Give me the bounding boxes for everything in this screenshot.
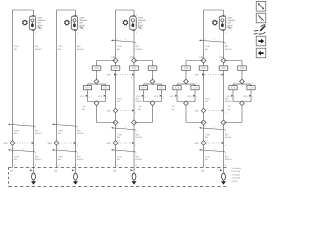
wire left branch 1 — [12, 10, 14, 168]
driver ground arrow 2 — [73, 180, 78, 184]
label wire 1g — [14, 156, 19, 162]
pin label 1R top — [35, 164, 37, 167]
connector marker 2 mid — [52, 122, 79, 131]
svg-text:X30: X30 — [221, 67, 226, 70]
tick 1 143R — [32, 142, 37, 147]
wire cluster 2 ring top — [144, 83, 162, 85]
injector INJ3 — [123, 14, 147, 34]
wire injector stub branch 2 — [75, 10, 77, 16]
connector marker 3 low — [111, 147, 137, 156]
splice cluster 3 bottom — [184, 101, 189, 106]
pin label 2L bot — [54, 170, 58, 173]
splice tie label 4 110 — [195, 110, 200, 113]
dotted tie 3 at 143 — [118, 142, 133, 144]
label wire 4g — [205, 156, 210, 162]
pin label cluster 4 b — [252, 81, 254, 84]
driver ground arrow 3 — [132, 180, 137, 184]
wire cluster 4 ring bottom — [233, 101, 251, 103]
wire cluster 4 feed — [224, 61, 243, 66]
label wire 3d — [136, 98, 143, 104]
merge splice 4L — [201, 120, 206, 125]
svg-text:739B: 739B — [14, 130, 19, 133]
label wire 2h — [77, 156, 84, 162]
connector box on wire 4L — [199, 66, 208, 70]
label wire 4c — [205, 98, 210, 104]
dotted tie 4 at 110.5 — [206, 110, 223, 112]
connector box cluster 2 R — [157, 86, 165, 90]
pin arrow 4 — [220, 169, 223, 171]
connector marker 1 low — [8, 147, 37, 156]
connector box cluster 2 L — [139, 86, 147, 90]
driver coil 1 — [32, 173, 36, 180]
svg-text:2 Fuel inj: 2 Fuel inj — [232, 170, 241, 173]
pin label cluster 1 b — [107, 81, 109, 84]
svg-text:BK/WH: BK/WH — [136, 136, 143, 139]
label wire 1e — [14, 130, 19, 136]
dotted tie 1 at 143 — [15, 142, 33, 144]
connector box cluster 3 L — [173, 86, 181, 90]
svg-text:BN/WH: BN/WH — [225, 48, 232, 51]
svg-text:BK/WH: BK/WH — [35, 132, 42, 135]
splice cluster 4 top — [240, 79, 245, 84]
label wire 2g — [58, 156, 63, 162]
svg-text:739B: 739B — [205, 156, 210, 159]
connector box cluster 2 feed — [148, 66, 157, 70]
splice S32 label — [130, 56, 135, 59]
svg-text:739B: 739B — [205, 134, 210, 137]
pin label cluster 3 a — [178, 81, 180, 84]
driver coil 2 — [74, 173, 78, 180]
connector marker 3 mid — [111, 125, 137, 134]
svg-text:X39: X39 — [107, 74, 112, 77]
icon signature pen — [254, 25, 266, 34]
label wire 4b — [225, 45, 232, 51]
svg-text:739B: 739B — [117, 156, 122, 159]
splice S42 — [221, 58, 226, 63]
wire cluster 2 feed — [134, 61, 153, 66]
driver coil 3 — [132, 173, 136, 180]
connector marker 4 low — [199, 147, 227, 156]
label wire 4e — [205, 134, 210, 140]
tick cluster 1 L — [80, 95, 91, 99]
splice S31 label — [111, 56, 116, 59]
splice 2 143L — [54, 141, 58, 145]
wire cluster 1 arm L — [87, 84, 89, 101]
splice S32 — [132, 58, 137, 63]
junction tie label 4 — [195, 74, 200, 77]
ECM box top edge — [9, 167, 229, 169]
icon next-page button — [256, 36, 266, 46]
splice 4 110L — [201, 108, 205, 112]
wire cluster 3 out — [186, 105, 204, 122]
pin label 2R top — [77, 164, 79, 167]
svg-text:X24: X24 — [85, 87, 90, 90]
label cluster 1 out — [82, 105, 86, 111]
pin label 3L bot — [113, 170, 117, 173]
wire control branch 4 — [223, 30, 225, 173]
svg-text:739B: 739B — [14, 156, 19, 159]
connector box on wire 3R — [130, 66, 139, 70]
tick 4 110R — [222, 109, 227, 114]
wire cluster 3 arm R — [194, 84, 196, 101]
pin arrow 3 — [130, 169, 133, 171]
svg-text:739A: 739A — [58, 45, 63, 48]
splice tie label 3 143 — [107, 142, 112, 145]
label wire 3c — [117, 98, 122, 104]
svg-text:X30: X30 — [201, 67, 206, 70]
wire injector stub branch 3 — [133, 10, 135, 16]
tick cluster 2 L — [136, 95, 147, 99]
wire top feed branch 3 — [116, 9, 135, 11]
tick 3 143R — [132, 142, 137, 147]
svg-text:1: 1 — [231, 29, 232, 32]
svg-text:X24: X24 — [249, 87, 254, 90]
svg-text:X50: X50 — [195, 142, 200, 145]
svg-text:BK/WH: BK/WH — [77, 132, 84, 135]
label wire 3h — [136, 156, 143, 162]
wire left branch 4 — [203, 10, 205, 168]
svg-text:BK/WH: BK/WH — [225, 158, 232, 161]
svg-text:4 Module: 4 Module — [232, 177, 241, 180]
dotted tie 3 at 110.5 — [118, 110, 133, 112]
tick cluster 3 L — [170, 95, 181, 99]
svg-text:X40: X40 — [107, 110, 112, 113]
dotted tie 3 at 74.6 — [118, 74, 134, 76]
wire control branch 3 — [133, 30, 135, 173]
dotted tie 2 at 143 — [59, 142, 75, 144]
splice 1 143L — [10, 141, 14, 145]
junction mark 4L — [202, 73, 205, 75]
splice S41 label — [199, 56, 204, 59]
svg-text:X50: X50 — [107, 142, 112, 145]
label wire 2e — [58, 130, 63, 136]
junction tie label 3 — [107, 74, 112, 77]
tick cluster 1 R — [98, 95, 109, 99]
connector box cluster 1 L — [83, 86, 91, 90]
svg-text:X30: X30 — [240, 67, 245, 70]
svg-text:X30: X30 — [113, 67, 118, 70]
connector box cluster 3 feed — [182, 66, 191, 70]
svg-text:1: 1 — [41, 29, 42, 32]
wire cluster 2 out — [134, 105, 153, 122]
svg-text:BN/WH: BN/WH — [35, 48, 42, 51]
junction mark 4R — [222, 74, 224, 76]
pin label cluster 2 b — [163, 81, 165, 84]
svg-text:X30: X30 — [94, 67, 99, 70]
label wire 3a — [117, 45, 122, 51]
ECM note text — [232, 167, 241, 183]
svg-text:739A: 739A — [117, 45, 122, 48]
wire cluster 1 arm R — [105, 84, 107, 101]
svg-text:X30: X30 — [150, 67, 155, 70]
svg-text:X24: X24 — [231, 87, 236, 90]
svg-text:BN/WH: BN/WH — [77, 48, 84, 51]
connector box on wire 3L — [111, 66, 120, 70]
splice S42 label — [219, 56, 224, 59]
connector marker 1 mid — [8, 122, 37, 131]
wire cluster 3 feed — [186, 61, 204, 66]
svg-text:BK/WH: BK/WH — [77, 158, 84, 161]
pin label 4R top — [225, 164, 227, 167]
connector marker 4 mid — [199, 125, 227, 134]
tick cluster 4 R — [244, 95, 255, 99]
connector box cluster 4 L — [229, 86, 237, 90]
label wire 1f — [35, 130, 42, 136]
svg-text:(PCM): (PCM) — [232, 180, 238, 183]
pin label 3R top — [135, 164, 137, 167]
wire cluster 2 arm R — [161, 84, 163, 101]
injector INJ2 — [64, 14, 88, 34]
splice cluster 1 bottom — [94, 101, 99, 106]
wire injector stub branch 4 — [223, 10, 225, 16]
svg-text:X30: X30 — [184, 67, 189, 70]
label wire 3b — [136, 45, 143, 51]
driver coil 4 — [222, 173, 226, 180]
svg-text:BK/WH: BK/WH — [225, 136, 232, 139]
splice cluster 2 bottom — [150, 101, 155, 106]
driver ground arrow 4 — [221, 180, 226, 184]
pin arrow 1 — [30, 169, 33, 171]
splice S31 — [113, 58, 118, 63]
label wire 3f — [136, 134, 143, 140]
wire cluster 4 arm L — [232, 84, 234, 101]
splice cluster 1 top — [94, 79, 99, 84]
connector X40 marker — [199, 38, 227, 47]
label wire 1b — [35, 45, 42, 51]
splice tie label 3 110 — [107, 110, 112, 113]
wire cluster 3 ring bottom — [177, 101, 195, 103]
tick cluster 3 R — [188, 95, 199, 99]
icon resize button 1 — [256, 2, 266, 12]
label wire 4h — [225, 156, 232, 162]
wire cluster 4 drop — [241, 70, 243, 79]
wire top feed branch 4 — [204, 9, 224, 11]
tick cluster 2 R — [154, 95, 165, 99]
wire cluster 1 feed — [97, 61, 116, 66]
wire control branch 1 — [33, 30, 35, 173]
svg-text:BN/WH: BN/WH — [136, 48, 143, 51]
tick 4 143R — [222, 142, 227, 147]
svg-text:BK/WH: BK/WH — [35, 158, 42, 161]
wire cluster 1 ring bottom — [88, 101, 106, 103]
label wire 1a — [14, 45, 19, 51]
wire cluster 3 ring top — [177, 83, 195, 85]
merge splice 4R — [221, 120, 226, 125]
merge splice 3R — [132, 120, 137, 125]
label cluster 4 out — [228, 105, 232, 111]
connector box cluster 1 R — [101, 86, 109, 90]
svg-text:739A: 739A — [205, 98, 210, 101]
label cluster 3 out — [172, 105, 176, 111]
pin label 4L bot — [201, 170, 205, 173]
svg-text:BN/WH: BN/WH — [225, 100, 232, 103]
tick 2 143R — [74, 142, 79, 147]
svg-text:X40: X40 — [195, 110, 200, 113]
svg-text:X30: X30 — [132, 67, 137, 70]
svg-text:X50: X50 — [4, 142, 9, 145]
dotted tie 4 at 74.6 — [206, 74, 223, 76]
connector box cluster 4 R — [247, 86, 255, 90]
splice 3 143L — [113, 141, 117, 145]
svg-text:1: 1 — [83, 29, 84, 32]
splice cluster 4 bottom — [240, 101, 245, 106]
label wire 4d — [225, 98, 232, 104]
connector box on wire 4R — [219, 66, 228, 70]
label wire 4f — [225, 134, 232, 140]
splice 3 110L — [113, 108, 117, 112]
pin label 4L top — [205, 164, 207, 167]
wire cluster 4 arm R — [250, 84, 252, 101]
pin arrow 2 — [72, 169, 75, 171]
pin label 1L bot — [10, 170, 14, 173]
connector box cluster 4 feed — [238, 66, 247, 70]
svg-text:X24: X24 — [141, 87, 146, 90]
label wire 2a — [58, 45, 63, 51]
wire cluster 4 out — [224, 105, 243, 122]
wire cluster 1 ring top — [88, 83, 106, 85]
ECM box bottom edge — [9, 186, 229, 188]
splice 4 143L — [201, 141, 205, 145]
junction mark 3R — [132, 74, 134, 76]
svg-text:1 Denotes: 1 Denotes — [232, 167, 241, 170]
svg-text:3 Control: 3 Control — [232, 173, 241, 176]
driver ground arrow 1 — [31, 180, 36, 184]
merge splice 3L — [113, 120, 118, 125]
injector INJ4 — [212, 14, 236, 34]
tick cluster 4 L — [226, 95, 237, 99]
icon resize button 2 — [256, 13, 266, 23]
tick 3 110R — [132, 109, 137, 114]
pin label cluster 2 a — [145, 81, 147, 84]
pin label cluster 3 b — [196, 81, 198, 84]
svg-text:739A: 739A — [14, 45, 19, 48]
label wire 4a — [205, 45, 210, 51]
svg-text:1: 1 — [142, 29, 143, 32]
wire top feed branch 1 — [13, 9, 34, 11]
label wire 2b — [77, 45, 84, 51]
junction mark 3L — [114, 73, 117, 75]
label wire 3e — [117, 134, 122, 140]
svg-text:739B: 739B — [58, 130, 63, 133]
pin label cluster 1 a — [89, 81, 91, 84]
svg-text:X24: X24 — [175, 87, 180, 90]
splice S41 — [201, 58, 206, 63]
svg-text:739A: 739A — [205, 45, 210, 48]
label wire 1h — [35, 156, 42, 162]
wire cluster 2 drop — [152, 70, 154, 79]
pin label 3L top — [117, 164, 119, 167]
pin label 1L top — [14, 164, 16, 167]
connector marker 2 low — [52, 147, 79, 156]
pin label 2L top — [58, 164, 60, 167]
svg-text:X39: X39 — [195, 74, 200, 77]
splice tie label 1 143 — [4, 142, 9, 145]
wire cluster 3 arm L — [176, 84, 178, 101]
icon prev-page button — [256, 48, 266, 58]
dotted tie 4 at 143 — [206, 142, 223, 144]
connector X30 marker — [111, 38, 137, 47]
label wire 3g — [117, 156, 122, 162]
wire left branch 2 — [56, 10, 58, 168]
wire control branch 2 — [75, 30, 77, 173]
wire injector stub branch 1 — [33, 10, 35, 16]
svg-text:X24: X24 — [103, 87, 108, 90]
pin label cluster 4 a — [234, 81, 236, 84]
svg-text:739B: 739B — [117, 134, 122, 137]
wire cluster 2 arm L — [143, 84, 145, 101]
svg-text:X24: X24 — [193, 87, 198, 90]
svg-text:739A: 739A — [117, 98, 122, 101]
wire cluster 1 drop — [96, 70, 98, 79]
connector box cluster 3 R — [191, 86, 199, 90]
wire cluster 1 out — [97, 105, 116, 122]
injector INJ1 — [22, 14, 46, 34]
splice tie label 2 143 — [48, 142, 53, 145]
label wire 2f — [77, 130, 84, 136]
svg-text:739B: 739B — [58, 156, 63, 159]
label cluster 2 out — [138, 105, 142, 111]
wire top feed branch 2 — [57, 9, 76, 11]
splice cluster 2 top — [150, 79, 155, 84]
svg-text:X24: X24 — [159, 87, 164, 90]
svg-text:X50: X50 — [48, 142, 53, 145]
ECM box left edge — [8, 168, 10, 187]
splice tie label 4 143 — [195, 142, 200, 145]
wire cluster 4 ring top — [233, 83, 251, 85]
wire left branch 3 — [115, 10, 117, 168]
connector box cluster 1 feed — [92, 66, 101, 70]
splice cluster 3 top — [184, 79, 189, 84]
wire cluster 3 drop — [185, 70, 187, 79]
svg-text:BK/WH: BK/WH — [136, 158, 143, 161]
svg-text:BN/WH: BN/WH — [136, 100, 143, 103]
wire cluster 2 ring bottom — [144, 101, 162, 103]
